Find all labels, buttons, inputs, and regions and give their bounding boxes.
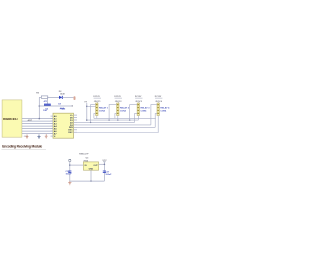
svg-text:JDQC2: JDQC2 (115, 101, 123, 103)
svg-text:JDQC4: JDQC4 (155, 100, 163, 103)
wire module to IC pin7 (22, 130, 53, 132)
svg-text:CON4: CON4 (120, 110, 127, 113)
capacitor C16 (66, 171, 73, 175)
wire JP1 bottom drop (96, 116, 98, 119)
ground left of IC (red) (45, 134, 48, 138)
wire bottom rail (70, 180, 105, 182)
op IC U2 decoder (45, 108, 73, 138)
junction h2 c (117, 119, 118, 120)
svg-text:RELAY 2: RELAY 2 (120, 107, 130, 110)
bus wire h4 (77, 124, 151, 126)
ground regulator (red) (68, 181, 71, 185)
wire JP4 pin1 riser (151, 105, 157, 125)
connector JP2 (117, 103, 119, 116)
wire VT to JP1 pin2 (87, 105, 96, 107)
junction h2 b (129, 119, 130, 120)
wire JP4 bottom drop (157, 116, 159, 133)
svg-text:RELAY 1: RELAY 1 (99, 107, 109, 110)
antenna E1 (74, 96, 76, 100)
wire module to IC pin3 (22, 120, 53, 122)
svg-text:RXB-4.7F: RXB-4.7F (79, 152, 89, 155)
wire JP4 pin4 drop (155, 114, 157, 128)
wire VT riser (86, 103, 88, 120)
relay group 4 (151, 96, 170, 132)
IC U2 right pin names (68, 115, 74, 134)
junction gnd/bottom (90, 180, 92, 182)
wire to regulator IN (70, 164, 84, 166)
junction VT/bus (86, 119, 88, 121)
wire module to IC pin2 (22, 118, 53, 120)
svg-text:RELAY 4: RELAY 4 (160, 107, 170, 110)
junction riser/wire (39, 118, 41, 120)
power symbol VT (84, 101, 95, 120)
power symbol VCC out (102, 160, 107, 162)
svg-text:JDQC3: JDQC3 (135, 101, 143, 103)
pin end data (72, 105, 73, 106)
resistor R9 (36, 93, 48, 103)
relay group 3 (130, 96, 151, 122)
diode D2 (59, 91, 66, 99)
wire JP1 pin1 riser (91, 105, 96, 123)
wire regulator GND drop (90, 170, 92, 181)
connector JP4 (157, 103, 159, 116)
ground module (red) (26, 135, 29, 139)
wire JP2 pin4 drop (115, 114, 117, 119)
junction h3 a (90, 122, 91, 123)
connector JP3 (137, 103, 139, 116)
IC U2 right pin stubs (74, 115, 78, 132)
wire JP2 pin1 riser (109, 105, 117, 121)
svg-text:V-: V- (54, 136, 56, 138)
wire JP3 bottom drop (137, 116, 139, 121)
svg-text:Encoding Receiving Module: Encoding Receiving Module (2, 144, 42, 148)
capacitor C17 (103, 171, 112, 176)
module U1 RF receiver (yellow block) (2, 100, 22, 137)
wire module to IC pin4 (22, 123, 53, 125)
svg-text:JDQC1: JDQC1 (94, 101, 102, 103)
wire JP1 pin4 drop (94, 114, 96, 119)
wire JP3 pin4 drop (135, 114, 138, 123)
underline of title (2, 149, 47, 151)
wire RF top (39, 96, 59, 98)
wire module to IC pin6 (22, 128, 53, 130)
bus wire h3 (77, 121, 135, 123)
svg-text:100uF: 100uF (105, 174, 112, 176)
wire diode to antenna (62, 96, 73, 98)
wire JP3 pin1 riser (130, 105, 137, 121)
svg-text:ANT: ANT (28, 119, 33, 122)
wire JP2 bottom drop (117, 116, 119, 121)
wire net label underline (94, 97, 101, 99)
svg-text:CON4: CON4 (160, 110, 167, 113)
svg-text:CON4: CON4 (99, 110, 106, 113)
capacitor C8 (43, 97, 51, 112)
bus wire h1 (94, 117, 156, 119)
bus wire h6 (77, 131, 159, 133)
junction right rail (104, 164, 106, 166)
wire module to IC pin5 (22, 125, 53, 127)
wire net label underline (155, 97, 162, 99)
wire data line (39, 105, 72, 107)
svg-text:RELAY 3: RELAY 3 (141, 107, 151, 110)
wire right rail (103, 162, 105, 181)
svg-text:CON4: CON4 (141, 110, 148, 113)
junction left rail (69, 164, 71, 166)
wire antenna riser (38, 97, 40, 118)
relay group 1 (91, 96, 109, 122)
power symbol VIN (69, 159, 71, 161)
svg-text:OSC: OSC (68, 132, 73, 134)
wire net label underline (115, 97, 122, 99)
svg-text:RXB08 4CH: RXB08 4CH (3, 117, 18, 121)
junction riser/data wire (39, 105, 41, 107)
wire module to IC pin8 (22, 133, 53, 135)
junction h2 a (108, 119, 109, 120)
wire regulator OUT (99, 163, 105, 165)
bus wire h2 (87, 119, 139, 121)
wire left rail (69, 162, 71, 181)
IC U2 left pin stubs (51, 116, 54, 136)
junction VT/data (86, 106, 88, 108)
IC U2 left pin names (54, 115, 58, 138)
relay group 2 (109, 96, 130, 120)
regulator U3 7805 (83, 158, 98, 171)
wire net label underline (135, 97, 142, 99)
connector JP1 (96, 103, 98, 116)
ground IC (blue) (37, 135, 40, 139)
svg-text:PT2272: PT2272 (60, 108, 66, 110)
bus wire h5 (77, 126, 155, 128)
svg-text:100uF: 100uF (66, 173, 73, 175)
